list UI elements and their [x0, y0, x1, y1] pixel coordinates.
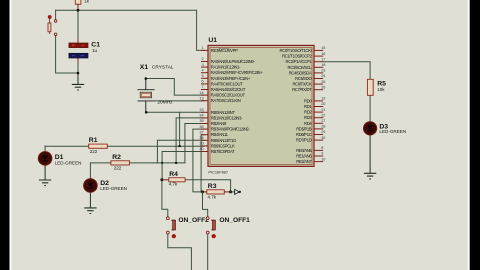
pin 37 RB4/AN11 [201, 134, 208, 136]
pin 13 RA7/OSC1/CLKIN [201, 100, 208, 102]
wire R4 left lead [162, 179, 169, 181]
svg-text:ON_OFF2: ON_OFF2 [178, 217, 209, 224]
svg-text:10: 10 [321, 157, 325, 161]
svg-text:6: 6 [201, 80, 203, 84]
svg-text:RC5/SDO: RC5/SDO [295, 76, 312, 81]
svg-text:9: 9 [321, 152, 323, 156]
pin 22 RD3 [314, 117, 323, 119]
pin 33 RB0/AN12/INT [201, 111, 208, 113]
wire ground stem under C1 [77, 73, 79, 84]
pin 40 RB7/ICSPDAT [201, 151, 208, 153]
pin 21 RD2 [314, 111, 323, 113]
svg-text:R2: R2 [112, 154, 121, 161]
svg-text:8: 8 [321, 146, 323, 150]
pin 23 RC4/SDI/SDA [314, 72, 323, 74]
logic state arrow at R3 [235, 189, 240, 194]
node RB0 branch junction [178, 145, 180, 147]
svg-text:2: 2 [201, 57, 203, 61]
LED D2 LED-GREEN [84, 179, 98, 193]
svg-text:RC4/SDI/SDA: RC4/SDI/SDA [289, 70, 312, 75]
crystal X1 [145, 79, 147, 90]
pin 34 RB1/AN10/C12IN3- [201, 117, 208, 119]
svg-text:CRYSTAL: CRYSTAL [152, 64, 174, 70]
pin 1 RE3/MCLR/VPP [201, 49, 208, 51]
pin 20 RD1 [314, 106, 323, 108]
svg-text:33: 33 [199, 108, 203, 112]
svg-text:17: 17 [321, 57, 325, 61]
pin 6 RA4/T0CKI/C1OUT [201, 83, 208, 85]
svg-text:X1: X1 [140, 64, 149, 71]
push-button switch (reset) [48, 15, 51, 18]
wire RB2 pin 35 down [185, 124, 204, 163]
svg-text:38: 38 [199, 136, 203, 140]
svg-text:14: 14 [199, 91, 203, 95]
svg-text:20MHz: 20MHz [157, 100, 173, 106]
svg-text:39: 39 [199, 142, 203, 146]
svg-text:13: 13 [199, 96, 203, 100]
svg-text:RC3/SCK/SCL: RC3/SCK/SCL [288, 65, 313, 70]
svg-text:22: 22 [321, 113, 325, 117]
node R4 left junction [160, 178, 163, 181]
svg-text:R3: R3 [208, 183, 217, 190]
pin 16 RC1/T1OSI/CCP2 [314, 55, 323, 57]
ground under C1 [72, 84, 84, 90]
pin 9 RE1/AN6 [314, 155, 323, 157]
wire D1 to ground [44, 165, 46, 180]
svg-text:RB1/AN10/C12IN3-: RB1/AN10/C12IN3- [211, 115, 243, 120]
svg-text:222: 222 [114, 166, 122, 171]
node R3 left junction [201, 190, 204, 193]
svg-text:27: 27 [321, 119, 325, 123]
svg-text:10k: 10k [377, 87, 385, 92]
svg-text:RB0/AN12/INT: RB0/AN12/INT [211, 110, 236, 115]
svg-text:RA3/AN3/VREF+/C1IN+: RA3/AN3/VREF+/C1IN+ [211, 76, 251, 81]
wire button top lead [55, 10, 57, 19]
pin 4 RA2/AN2/VREF-/CVREF/C2IN+ [201, 72, 208, 74]
pin 3 RA1/AN1/C12IN1- [201, 66, 208, 68]
svg-text:7: 7 [201, 85, 203, 89]
svg-text:4.7k: 4.7k [208, 195, 217, 200]
svg-text:34: 34 [199, 114, 203, 118]
svg-text:3: 3 [201, 63, 203, 67]
ground under D3 [364, 173, 376, 179]
svg-text:R1: R1 [89, 137, 98, 144]
wire D3 to ground [369, 135, 371, 173]
wire RB0 pin 33 from crystal bottom node [146, 111, 204, 113]
wire RB7 pin 40 run left [162, 152, 204, 163]
svg-text:4.7k: 4.7k [169, 182, 178, 187]
svg-text:1: 1 [201, 46, 203, 50]
svg-text:RE2/AN7: RE2/AN7 [296, 159, 312, 164]
ground under D2 [84, 208, 96, 214]
node R3 right junction [229, 190, 232, 193]
svg-text:RD7/P1D: RD7/P1D [296, 138, 312, 143]
resistor R5 10k [367, 79, 373, 95]
svg-text:RD4: RD4 [304, 121, 312, 126]
svg-text:RA5/AN4/SS/C2OUT: RA5/AN4/SS/C2OUT [211, 87, 246, 92]
svg-text:RB2/AN8: RB2/AN8 [211, 121, 227, 126]
svg-text:15: 15 [321, 46, 325, 50]
svg-text:23: 23 [321, 69, 325, 73]
svg-text:RB3/AN9/PGM/C12IN2-: RB3/AN9/PGM/C12IN2- [211, 127, 251, 132]
svg-text:RE1/AN6: RE1/AN6 [296, 154, 312, 159]
svg-text:RA0/AN0/ULPWU/C12IN0-: RA0/AN0/ULPWU/C12IN0- [211, 59, 256, 64]
wire RB1 pin 34 down [176, 118, 204, 163]
wire R3 to logic toggle arrow [231, 191, 235, 193]
pin 36 RB3/AN9/PGM/C12IN2- [201, 128, 208, 130]
svg-text:18: 18 [321, 63, 325, 67]
svg-text:RB4/AN11: RB4/AN11 [211, 132, 229, 137]
capacitor C1 negative plate [69, 53, 88, 58]
pin 35 RB2/AN8 [201, 123, 208, 125]
svg-text:19: 19 [321, 97, 325, 101]
svg-text:LED-GREEN: LED-GREEN [100, 186, 127, 191]
svg-text:RD2: RD2 [304, 110, 312, 115]
svg-text:5: 5 [201, 74, 203, 78]
pin 28 RD5/P1B [314, 128, 323, 130]
wire RC2/CCP1 pin 17 to R5 [323, 62, 370, 80]
svg-text:37: 37 [199, 130, 203, 134]
svg-text:222: 222 [90, 149, 98, 154]
svg-text:4: 4 [201, 68, 203, 72]
svg-text:24: 24 [321, 74, 325, 78]
pin 26 RC7/RX/DT [314, 89, 323, 91]
svg-text:RD5/P1B: RD5/P1B [296, 126, 312, 131]
svg-text:20: 20 [321, 102, 325, 106]
pin 18 RC3/SCK/SCL [314, 66, 323, 68]
ground under D1 [39, 180, 51, 186]
svg-text:RA2/AN2/VREF-/CVREF/C2IN+: RA2/AN2/VREF-/CVREF/C2IN+ [211, 70, 263, 75]
svg-text:36: 36 [199, 125, 203, 129]
svg-text:RA7/OSC1/CLKIN: RA7/OSC1/CLKIN [211, 98, 241, 103]
wire R2 left lead to D2 [90, 162, 111, 164]
svg-text:R4: R4 [169, 171, 178, 178]
pin 39 RB6/ICSPCLK [201, 145, 208, 147]
svg-text:LED-GREEN: LED-GREEN [379, 129, 406, 134]
svg-text:28: 28 [321, 125, 325, 129]
pin 19 RD0 [314, 100, 323, 102]
svg-text:16: 16 [321, 52, 325, 56]
wire R1 to RB6 pin 39 [107, 145, 204, 147]
svg-text:40: 40 [199, 147, 203, 151]
pin 7 RA5/AN4/SS/C2OUT [201, 89, 208, 91]
op IC body U1 PIC16F887 [208, 45, 314, 166]
svg-text:RE0/AN5: RE0/AN5 [296, 148, 312, 153]
pin 2 RA0/AN0/ULPWU/C12IN0- [201, 61, 208, 63]
wire crystal top to OSC2 pin 14 [146, 79, 204, 96]
node pin34 junction on R2 net [175, 162, 177, 164]
svg-text:U1: U1 [208, 37, 217, 44]
svg-text:RB7/ICSPDAT: RB7/ICSPDAT [211, 149, 235, 154]
wire R4 right to R3 right [185, 180, 231, 192]
node C1/button/ground junction [77, 72, 80, 75]
wire R5 to D3 [369, 95, 371, 122]
pin 10 RE2/AN7 [314, 161, 323, 163]
svg-text:26: 26 [321, 85, 325, 89]
wire D2 to ground [89, 192, 91, 208]
wire C1 top [77, 10, 79, 39]
svg-text:21: 21 [321, 108, 325, 112]
toggle switch ON_OFF1 [206, 217, 209, 220]
resistor R2 222 [111, 161, 130, 165]
pin 38 RB5/AN13/T1G [201, 139, 208, 141]
svg-text:RB5/AN13/T1G: RB5/AN13/T1G [211, 138, 236, 143]
wire R4 to switch ON_OFF2 feed [162, 180, 168, 217]
svg-text:RE3/M̅C̅L̅R̅/VPP: RE3/M̅C̅L̅R̅/VPP [211, 48, 238, 53]
pin 29 RD6/P1C [314, 134, 323, 136]
wire R3 left lead [203, 191, 207, 193]
svg-text:RC2/P1A/CCP1: RC2/P1A/CCP1 [286, 59, 313, 64]
pin 8 RE0/AN5 [314, 149, 323, 151]
svg-text:1k: 1k [84, 0, 90, 3]
LED D3 LED-GREEN [364, 122, 377, 135]
svg-text:RA4/T0CKI/C1OUT: RA4/T0CKI/C1OUT [211, 81, 243, 86]
wire button bottom to ground net [56, 36, 78, 73]
svg-text:29: 29 [321, 130, 325, 134]
svg-text:LED-GREEN: LED-GREEN [55, 160, 82, 165]
toggle switch ON_OFF2 [166, 217, 169, 220]
wire OSC1 pin 13 from crystal [155, 100, 205, 102]
wire C1 bottom [77, 58, 79, 62]
svg-text:RC7/RX/DT: RC7/RX/DT [292, 87, 312, 92]
wire RB4 pin 37 down [201, 135, 204, 192]
svg-text:RA1/AN1/C12IN1-: RA1/AN1/C12IN1- [211, 65, 241, 70]
wire R3 right lead [224, 191, 230, 193]
pin 15 RC0/T1OSO/T1CKI [314, 49, 323, 51]
resistor R1 222 [89, 144, 108, 148]
resistor R4 4.7k [169, 178, 185, 182]
svg-text:RC0/T1OSO/T1CKI: RC0/T1OSO/T1CKI [280, 48, 312, 53]
pin 24 RC5/SDO [314, 78, 323, 80]
svg-text:RC6/TX/CK: RC6/TX/CK [292, 82, 311, 87]
svg-text:RB6/ICSPCLK: RB6/ICSPCLK [211, 143, 235, 148]
svg-text:1u: 1u [92, 48, 98, 53]
svg-text:RC1/T1OSI/CCP2: RC1/T1OSI/CCP2 [282, 54, 312, 59]
pin 30 RD7/P1D [314, 139, 323, 141]
wire RB3 pin 36 down to R3 [193, 129, 204, 192]
pin 25 RC6/TX/CK [314, 83, 323, 85]
wire R2 net horizontal [130, 162, 185, 164]
node crystal top junction [145, 77, 148, 80]
wire switch ON_OFF1 drain down [207, 234, 209, 270]
resistor R6 1k pull-up (cut off at top) [75, 0, 81, 4]
resistor R3 4.7k [207, 190, 225, 194]
wire RB5 pin 38 down to R2 net [157, 140, 204, 163]
pin 27 RD4 [314, 122, 323, 124]
capacitor C1 1u positive plate [69, 43, 88, 48]
svg-text:25: 25 [321, 80, 325, 84]
svg-text:RD0: RD0 [304, 98, 312, 103]
wire switch ON_OFF1 feed from R3 [203, 192, 208, 217]
node crystal bottom junction [145, 111, 148, 114]
svg-text:30: 30 [321, 136, 325, 140]
svg-text:ON_OFF1: ON_OFF1 [219, 217, 250, 224]
svg-text:PIC16F887: PIC16F887 [208, 170, 228, 175]
svg-text:RA6/OSC2/CLKOUT: RA6/OSC2/CLKOUT [211, 93, 246, 98]
wire RB0 branch down to R1 net [179, 112, 181, 146]
wire switch ON_OFF2 drain down [168, 234, 192, 270]
wire MCLR top rail [56, 10, 205, 50]
node R2 net T-junction [161, 162, 163, 164]
node MCLR junction at resistor [77, 9, 80, 12]
wire R2 net down to R4 [161, 163, 163, 180]
svg-text:35: 35 [199, 119, 203, 123]
pin 5 RA3/AN3/VREF+/C1IN+ [201, 77, 208, 79]
pin 14 RA6/OSC2/CLKOUT [201, 94, 208, 96]
wire R1 left lead to D1 [45, 145, 89, 147]
pin 17 RC2/P1A/CCP1 [314, 61, 323, 63]
svg-text:RD1: RD1 [304, 104, 312, 109]
LED D1 LED-GREEN [38, 152, 52, 166]
svg-text:RD6/P1C: RD6/P1C [296, 132, 312, 137]
svg-text:RD3: RD3 [304, 115, 312, 120]
